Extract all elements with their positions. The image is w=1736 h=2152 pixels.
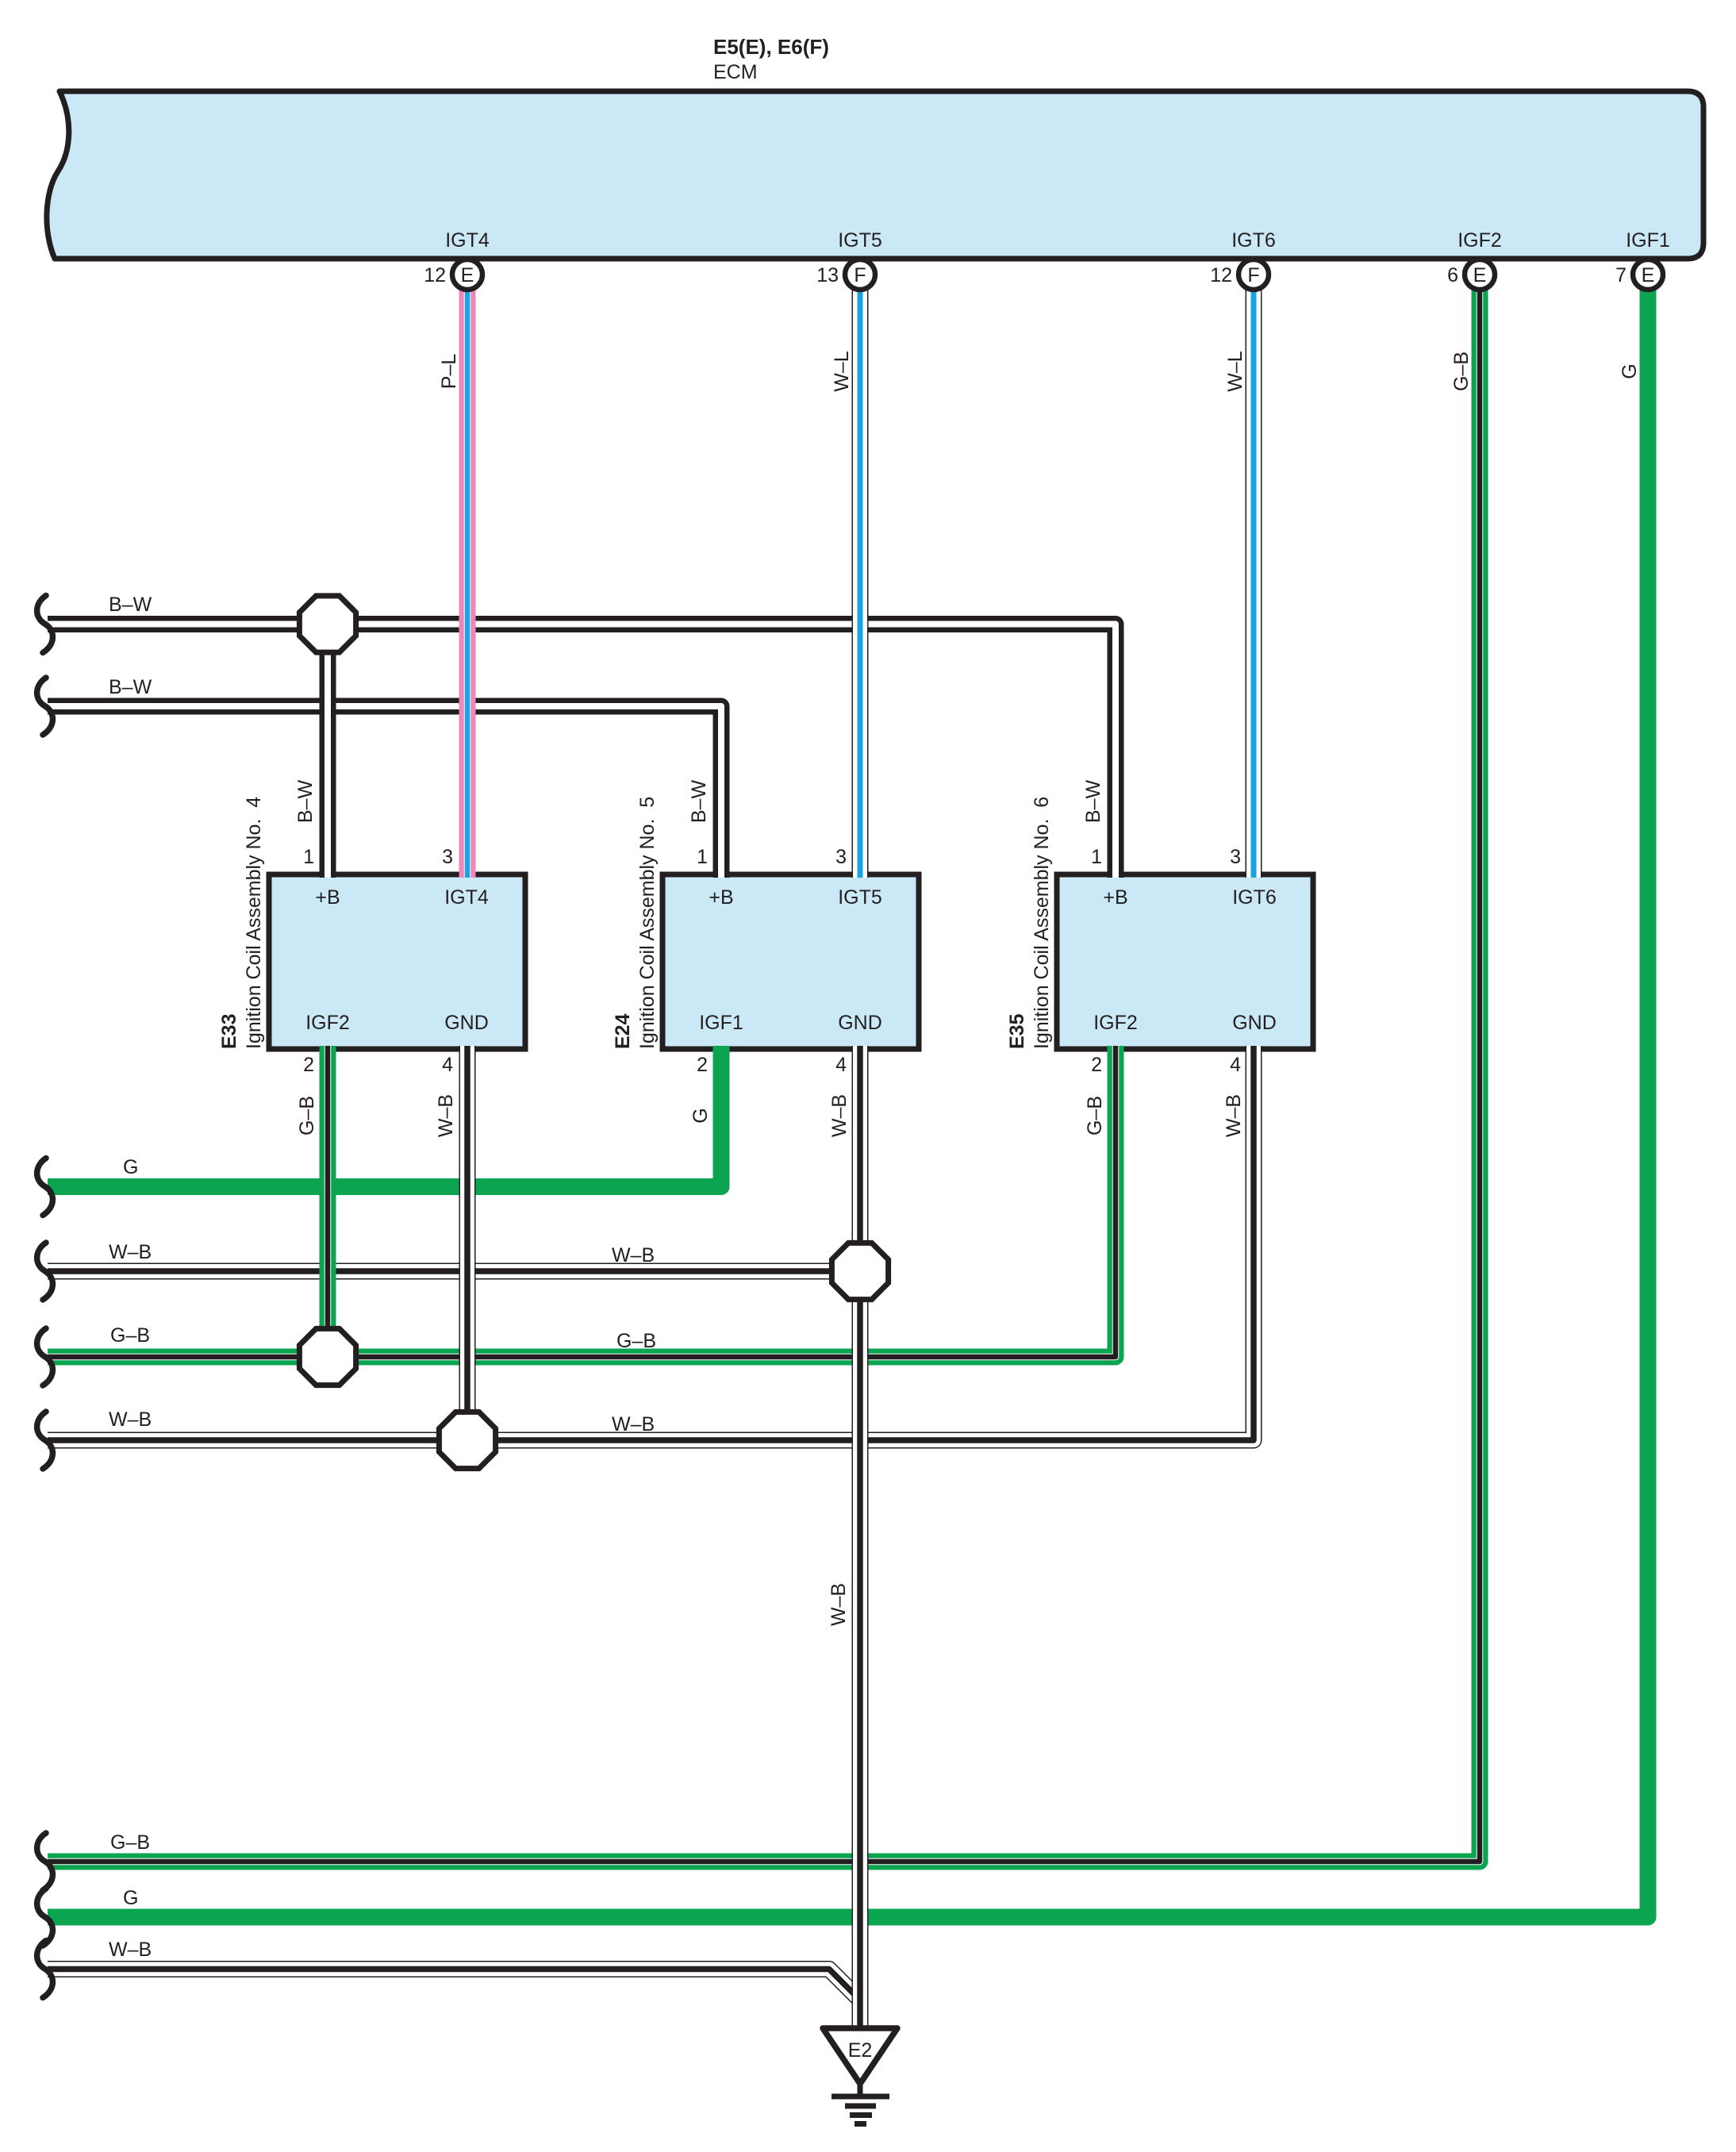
svg-text:GND: GND — [838, 1012, 882, 1034]
svg-text:W–B: W–B — [612, 1244, 655, 1266]
svg-text:IGT4: IGT4 — [444, 886, 489, 909]
svg-text:IGT6: IGT6 — [1232, 886, 1277, 909]
svg-text:W–B: W–B — [109, 1939, 152, 1961]
svg-text:2: 2 — [697, 1054, 708, 1076]
svg-text:4: 4 — [835, 1054, 847, 1076]
svg-text:B–W: B–W — [109, 676, 152, 698]
svg-text:E2: E2 — [848, 2039, 873, 2062]
svg-text:3: 3 — [835, 846, 847, 868]
svg-text:B–W: B–W — [294, 780, 317, 824]
svg-text:W–B: W–B — [109, 1241, 152, 1263]
svg-text:+B: +B — [315, 886, 340, 909]
svg-text:4: 4 — [442, 1054, 453, 1076]
svg-text:B–W: B–W — [688, 780, 710, 824]
svg-text:E35: E35 — [1006, 1013, 1028, 1049]
svg-text:1: 1 — [1091, 846, 1102, 868]
svg-text:E5(E), E6(F): E5(E), E6(F) — [713, 35, 829, 59]
svg-text:2: 2 — [303, 1054, 314, 1076]
svg-text:E: E — [1473, 264, 1487, 286]
svg-text:7: 7 — [1615, 264, 1627, 286]
svg-text:W–B: W–B — [1223, 1094, 1245, 1137]
svg-text:+B: +B — [1103, 886, 1127, 909]
svg-text:W–L: W–L — [831, 351, 853, 392]
svg-text:B–W: B–W — [1082, 780, 1104, 824]
svg-text:GND: GND — [1232, 1012, 1277, 1034]
svg-text:E: E — [1642, 264, 1655, 286]
svg-text:G–B: G–B — [1450, 352, 1473, 391]
svg-text:IGF1: IGF1 — [699, 1012, 743, 1034]
svg-text:B–W: B–W — [109, 594, 152, 616]
svg-text:IGF2: IGF2 — [305, 1012, 350, 1034]
svg-text:G–B: G–B — [110, 1324, 150, 1347]
svg-text:G–B: G–B — [296, 1096, 318, 1136]
svg-text:F: F — [854, 264, 866, 286]
svg-text:W–B: W–B — [828, 1583, 850, 1626]
svg-text:2: 2 — [1091, 1054, 1102, 1076]
svg-text:ECM: ECM — [713, 61, 758, 83]
svg-text:IGT6: IGT6 — [1231, 229, 1276, 252]
svg-text:IGF1: IGF1 — [1626, 229, 1670, 252]
svg-text:1: 1 — [303, 846, 314, 868]
svg-text:E24: E24 — [612, 1013, 634, 1049]
svg-text:E: E — [461, 264, 474, 286]
svg-text:GND: GND — [444, 1012, 489, 1034]
svg-text:G: G — [1619, 363, 1641, 379]
svg-text:W–B: W–B — [435, 1094, 457, 1137]
svg-text:G: G — [689, 1108, 712, 1123]
svg-text:+B: +B — [709, 886, 733, 909]
svg-text:IGT4: IGT4 — [445, 229, 490, 252]
svg-text:Ignition Coil Assembly No. 4: Ignition Coil Assembly No. 4 — [243, 797, 265, 1049]
svg-text:IGF2: IGF2 — [1458, 229, 1502, 252]
svg-text:12: 12 — [424, 264, 446, 286]
svg-text:IGT5: IGT5 — [838, 886, 882, 909]
svg-text:G: G — [123, 1156, 138, 1178]
svg-text:Ignition Coil Assembly No. 6: Ignition Coil Assembly No. 6 — [1031, 797, 1053, 1049]
svg-text:6: 6 — [1447, 264, 1458, 286]
svg-text:W–B: W–B — [109, 1408, 152, 1431]
svg-text:1: 1 — [697, 846, 708, 868]
svg-text:W–B: W–B — [612, 1413, 655, 1435]
svg-text:IGF2: IGF2 — [1093, 1012, 1138, 1034]
svg-text:IGT5: IGT5 — [838, 229, 882, 252]
svg-text:G–B: G–B — [1084, 1096, 1106, 1136]
svg-text:3: 3 — [442, 846, 453, 868]
svg-text:G–B: G–B — [616, 1330, 656, 1352]
svg-text:G–B: G–B — [110, 1831, 150, 1854]
svg-text:12: 12 — [1210, 264, 1232, 286]
svg-text:W–B: W–B — [828, 1094, 851, 1137]
svg-text:G: G — [123, 1887, 138, 1909]
svg-text:E33: E33 — [218, 1014, 240, 1049]
svg-text:W–L: W–L — [1224, 351, 1246, 392]
svg-text:3: 3 — [1230, 846, 1241, 868]
svg-text:13: 13 — [816, 264, 839, 286]
svg-text:F: F — [1247, 264, 1259, 286]
svg-text:4: 4 — [1230, 1054, 1241, 1076]
svg-text:Ignition Coil Assembly No. 5: Ignition Coil Assembly No. 5 — [636, 797, 659, 1049]
svg-text:P–L: P–L — [438, 354, 460, 390]
